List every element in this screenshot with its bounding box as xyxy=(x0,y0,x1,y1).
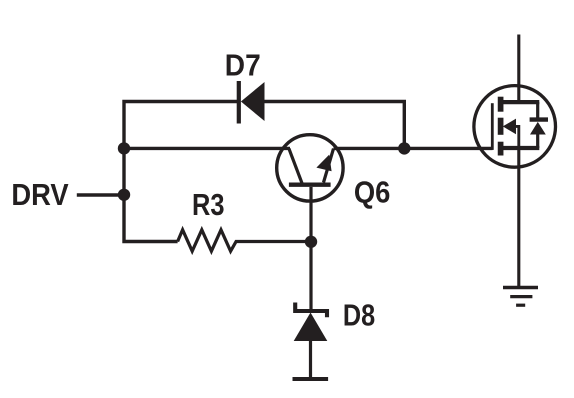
wire MOSFET drain lead xyxy=(517,35,520,102)
diode D7 cathode bar xyxy=(237,81,241,124)
transistor Q6 emitter arrow xyxy=(316,155,331,172)
wire MOSFET source lead xyxy=(517,150,520,288)
MOSFET circle xyxy=(474,86,556,168)
wire Q6 base lead xyxy=(309,187,312,242)
wire gate rail from Q6 emitter to MOSFET gate xyxy=(334,147,493,150)
MOSFET body arrow line xyxy=(512,125,519,148)
MOSFET body diode cathode bar xyxy=(530,117,548,121)
svg-text:D8: D8 xyxy=(343,298,375,332)
ground symbol bottom bar xyxy=(516,304,525,307)
diode D8 anode triangle xyxy=(294,313,328,342)
MOSFET source rail xyxy=(500,146,539,150)
wire D8 anode lead xyxy=(309,340,312,377)
transistor Q6 collector slant xyxy=(289,149,302,184)
MOSFET channel bar drain xyxy=(498,97,504,112)
junction dot at DRV / left rail xyxy=(118,189,130,201)
MOSFET body arrowhead xyxy=(503,119,516,135)
ground symbol top bar xyxy=(503,286,538,289)
svg-text:DRV: DRV xyxy=(11,178,69,212)
terminal bar below D8 xyxy=(293,377,329,381)
svg-text:D7: D7 xyxy=(225,48,261,82)
wire R3 rail to base node xyxy=(305,240,311,243)
MOSFET body diode branch bottom xyxy=(536,134,539,149)
ground symbol middle bar xyxy=(510,295,532,298)
svg-text:Q6: Q6 xyxy=(354,175,391,209)
junction dot at left rail / collector rail xyxy=(118,142,130,154)
junction dot base / R3 / D8 xyxy=(305,236,317,248)
transistor Q6 base bar xyxy=(289,182,331,186)
resistor R3 xyxy=(178,230,305,251)
transistor Q6 circle xyxy=(277,135,343,201)
MOSFET channel bar source xyxy=(498,142,504,156)
wire down to zener D8 xyxy=(309,242,312,310)
MOSFET channel bar body xyxy=(498,118,504,135)
wire left vertical rail with top D7 rail and bottom R3 rail xyxy=(124,102,237,242)
junction dot at gate rail / D7 return xyxy=(398,142,410,154)
MOSFET gate bar xyxy=(491,103,494,150)
MOSFET body diode triangle xyxy=(530,122,546,135)
wire D7 anode to right vertical down to gate rail xyxy=(264,102,404,149)
wire DRV stub xyxy=(77,193,124,196)
transistor Q6 emitter slant xyxy=(324,149,334,183)
MOSFET body diode branch top xyxy=(536,102,539,118)
diode D8 zener cathode bar xyxy=(295,303,327,318)
wire collector rail from left vertical to Q6 xyxy=(124,147,290,150)
svg-text:R3: R3 xyxy=(192,188,225,222)
diode D7 anode triangle xyxy=(241,82,265,121)
MOSFET drain rail xyxy=(500,100,539,104)
